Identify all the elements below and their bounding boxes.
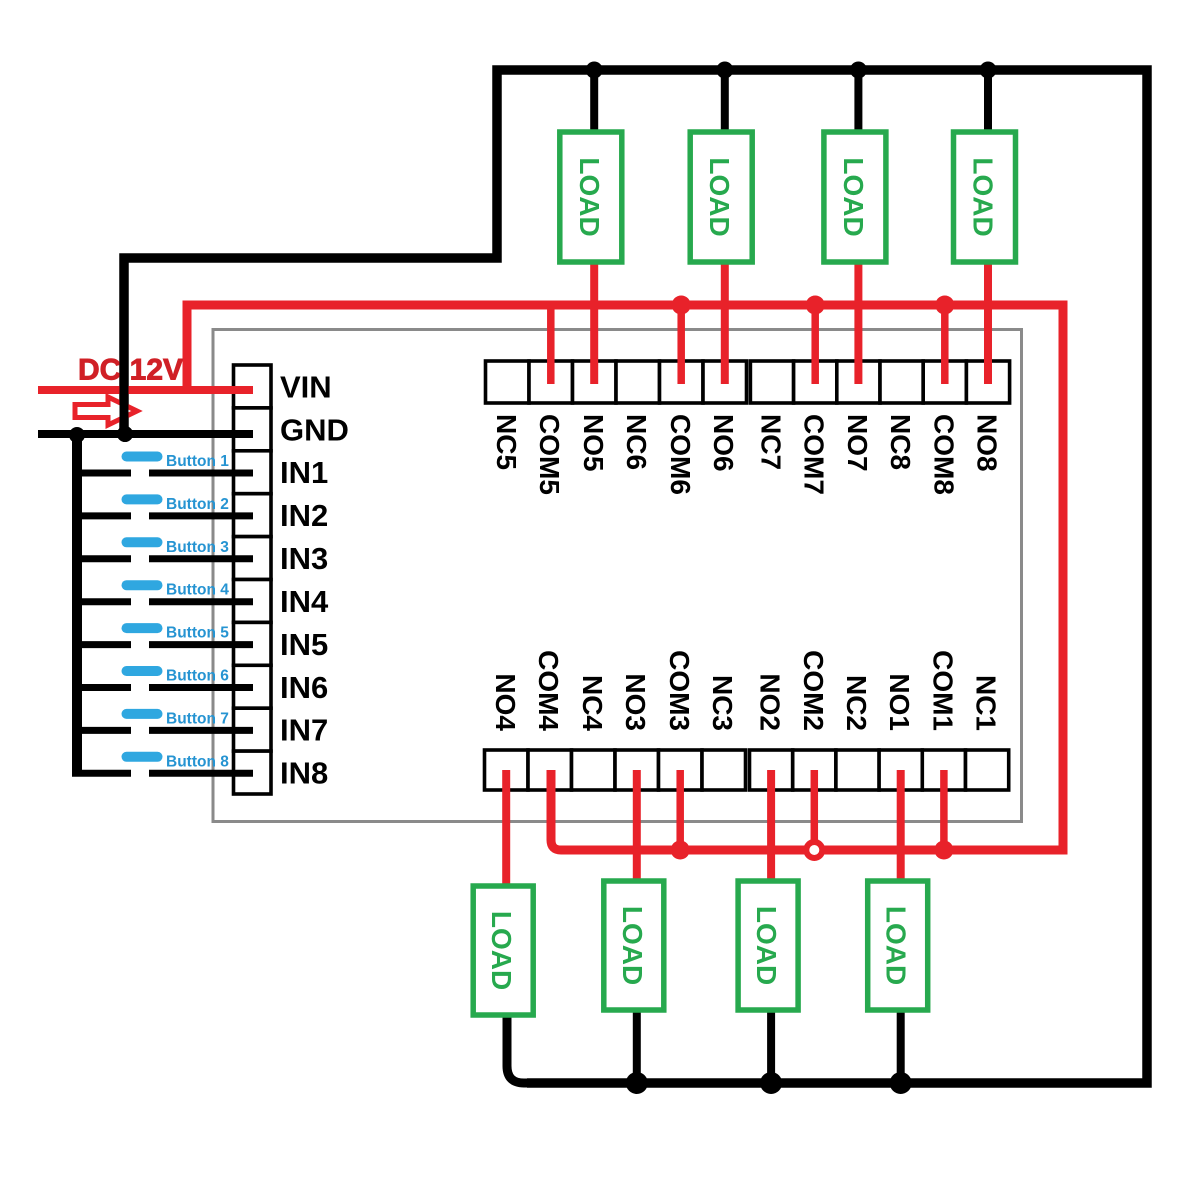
terminal NC8 bbox=[880, 361, 923, 403]
junction 12V bus at COM6 bbox=[672, 296, 691, 315]
terminal NO3 bbox=[615, 750, 659, 790]
load L3 bbox=[604, 881, 664, 1010]
wire GND input line bbox=[38, 430, 253, 438]
terminal IN8 bbox=[234, 751, 272, 794]
wire supply to LOAD 8 bbox=[984, 70, 992, 133]
wire DC12V VIN input line bbox=[38, 386, 253, 394]
wire button 6 to IN6 bbox=[149, 684, 253, 691]
wire NO2 to LOAD 2 bbox=[767, 770, 775, 881]
junction on bottom bus bbox=[890, 1072, 912, 1094]
button B1 actuator bbox=[122, 452, 163, 462]
svg-text:NC2: NC2 bbox=[841, 675, 872, 731]
terminal COM8 bbox=[923, 361, 966, 403]
terminal NC2 bbox=[836, 750, 879, 790]
terminal NC4 bbox=[572, 750, 616, 790]
svg-text:DC 12V: DC 12V bbox=[78, 354, 183, 387]
terminal NO4 bbox=[485, 750, 529, 790]
junction GND at button chain bbox=[69, 427, 85, 443]
svg-text:IN7: IN7 bbox=[280, 713, 328, 748]
svg-text:NO3: NO3 bbox=[620, 673, 651, 731]
svg-text:IN2: IN2 bbox=[280, 498, 328, 533]
svg-text:Button 8: Button 8 bbox=[166, 753, 229, 770]
svg-text:NO4: NO4 bbox=[490, 673, 521, 731]
svg-text:NC7: NC7 bbox=[756, 414, 787, 470]
svg-text:Button 4: Button 4 bbox=[166, 582, 229, 599]
svg-text:COM5: COM5 bbox=[534, 414, 565, 495]
junction GND at supply drop bbox=[117, 426, 133, 442]
load L5 bbox=[560, 132, 622, 262]
terminal NO7 bbox=[837, 361, 880, 403]
svg-text:COM6: COM6 bbox=[665, 414, 696, 495]
junction 12V bus at COM7 bbox=[806, 296, 825, 315]
svg-text:COM4: COM4 bbox=[533, 650, 564, 731]
wire button 7 to IN7 bbox=[149, 727, 253, 734]
wire COM3 to 12V bus bbox=[676, 770, 684, 850]
svg-text:LOAD: LOAD bbox=[838, 157, 869, 236]
wire button 7 left contact bbox=[72, 727, 131, 734]
svg-text:Button 5: Button 5 bbox=[166, 625, 229, 642]
wire button 8 left contact bbox=[72, 770, 131, 777]
terminal NO1 bbox=[879, 750, 922, 790]
load L8 bbox=[954, 132, 1016, 262]
terminal COM3 bbox=[659, 750, 703, 790]
terminal IN7 bbox=[234, 708, 272, 751]
terminal COM1 bbox=[922, 750, 965, 790]
wire button 5 to IN5 bbox=[149, 641, 253, 648]
wire NO4 to LOAD 4 bbox=[502, 770, 510, 886]
terminal NC6 bbox=[616, 361, 660, 403]
wire button 4 to IN4 bbox=[149, 598, 253, 605]
wire supply to LOAD 7 bbox=[854, 70, 862, 133]
button B5 actuator bbox=[122, 623, 163, 633]
wire button 1 left contact bbox=[72, 470, 131, 477]
wire 12V to COM6 bbox=[677, 302, 685, 384]
svg-text:LOAD: LOAD bbox=[751, 906, 782, 985]
wire button 6 left contact bbox=[72, 684, 131, 691]
terminal NC3 bbox=[702, 750, 746, 790]
terminal NC1 bbox=[966, 750, 1009, 790]
svg-text:LOAD: LOAD bbox=[486, 911, 517, 990]
wire LOAD 3 to bottom bus bbox=[633, 1008, 641, 1083]
svg-text:NC4: NC4 bbox=[577, 675, 608, 731]
wire 12V to COM8 bbox=[941, 302, 949, 384]
svg-text:NC8: NC8 bbox=[885, 414, 916, 470]
junction 12V bus at COM3 bbox=[671, 841, 690, 860]
wire button chain vertical bbox=[72, 434, 82, 773]
terminal IN6 bbox=[234, 665, 272, 708]
svg-text:LOAD: LOAD bbox=[574, 157, 605, 236]
svg-text:Button 2: Button 2 bbox=[166, 496, 229, 513]
load L6 bbox=[690, 132, 752, 262]
terminal IN3 bbox=[234, 537, 272, 580]
terminal GND bbox=[234, 408, 272, 451]
wire COM2 to 12V bus bbox=[811, 770, 819, 841]
wire COM1 to 12V bus bbox=[940, 770, 948, 850]
wire LOAD 2 to bottom bus bbox=[767, 1008, 775, 1083]
junction on top bus at LOAD 7 bbox=[850, 62, 867, 79]
wire NO4 load to bottom bus corner bbox=[507, 1013, 570, 1083]
wire button 8 to IN8 bbox=[149, 770, 253, 777]
svg-text:COM3: COM3 bbox=[664, 650, 695, 731]
wire button 3 to IN3 bbox=[149, 555, 253, 562]
button B6 actuator bbox=[122, 666, 163, 676]
relay module outline bbox=[213, 330, 1022, 822]
wire button 1 to IN1 bbox=[149, 470, 253, 477]
junction on bottom bus bbox=[760, 1072, 782, 1094]
svg-text:LOAD: LOAD bbox=[881, 906, 912, 985]
load L4 bbox=[473, 886, 533, 1015]
wire 12V to COM7 bbox=[811, 302, 819, 384]
button B4 actuator bbox=[122, 580, 163, 590]
wire supply drop over-stroke bbox=[120, 345, 129, 438]
wire button 5 left contact bbox=[72, 641, 131, 648]
wire NO1 to LOAD 1 bbox=[897, 770, 905, 881]
button B7 actuator bbox=[122, 709, 163, 719]
wire LOAD 6 to NO6 bbox=[721, 261, 729, 384]
terminal COM2 bbox=[793, 750, 836, 790]
terminal VIN bbox=[234, 365, 272, 408]
terminal COM6 bbox=[660, 361, 704, 403]
wire 12V to COM5 bbox=[547, 302, 555, 384]
load L2 bbox=[738, 881, 798, 1010]
svg-text:GND: GND bbox=[280, 412, 349, 447]
svg-text:LOAD: LOAD bbox=[704, 157, 735, 236]
wire button 2 to IN2 bbox=[149, 512, 253, 519]
load L1 bbox=[868, 881, 928, 1010]
junction 12V bus at COM8 bbox=[935, 296, 954, 315]
terminal IN4 bbox=[234, 580, 272, 623]
junction on top bus at LOAD 5 bbox=[586, 62, 603, 79]
svg-text:NC6: NC6 bbox=[621, 414, 652, 470]
load L7 bbox=[824, 132, 886, 262]
svg-text:COM1: COM1 bbox=[927, 650, 958, 731]
terminal COM7 bbox=[794, 361, 837, 403]
junction GND at supply drop (top copy) bbox=[117, 426, 133, 442]
svg-text:Button 7: Button 7 bbox=[166, 710, 229, 727]
wire supply to LOAD 5 bbox=[590, 70, 598, 133]
svg-text:IN1: IN1 bbox=[280, 455, 328, 490]
svg-text:Button 3: Button 3 bbox=[166, 539, 229, 556]
terminal NC7 bbox=[750, 361, 793, 403]
open junction 12V bus at COM2 bbox=[806, 842, 822, 858]
junction on bottom bus bbox=[626, 1072, 648, 1094]
svg-text:LOAD: LOAD bbox=[968, 157, 999, 236]
wire 12V bus: up from VIN, top bus, right side, bottom bus to COM4 bbox=[187, 305, 1063, 850]
svg-text:NO1: NO1 bbox=[884, 673, 915, 731]
svg-text:VIN: VIN bbox=[280, 369, 332, 404]
svg-text:Button 6: Button 6 bbox=[166, 668, 229, 685]
wire GND main run: left drop, top bus, right side, bottom bus bbox=[124, 70, 1147, 1083]
junction on top bus at LOAD 8 bbox=[980, 62, 997, 79]
svg-text:NO2: NO2 bbox=[755, 673, 786, 731]
svg-text:NC5: NC5 bbox=[491, 414, 522, 470]
terminal NO2 bbox=[750, 750, 793, 790]
svg-text:NO5: NO5 bbox=[578, 414, 609, 472]
wire NO3 to LOAD 3 bbox=[633, 770, 641, 881]
button B8 actuator bbox=[122, 752, 163, 762]
power flow arrow bbox=[75, 397, 137, 425]
svg-text:NC1: NC1 bbox=[971, 675, 1002, 731]
svg-text:COM7: COM7 bbox=[799, 414, 830, 495]
terminal COM5 bbox=[529, 361, 573, 403]
terminal NO5 bbox=[573, 361, 617, 403]
terminal IN1 bbox=[234, 451, 272, 494]
wire LOAD 1 to bottom bus bbox=[897, 1008, 905, 1083]
terminal NO8 bbox=[966, 361, 1009, 403]
svg-text:COM8: COM8 bbox=[928, 414, 959, 495]
svg-text:IN3: IN3 bbox=[280, 541, 328, 576]
wire button 3 left contact bbox=[72, 555, 131, 562]
svg-text:Button 1: Button 1 bbox=[166, 453, 229, 470]
svg-text:IN4: IN4 bbox=[280, 584, 329, 619]
junction on top bus at LOAD 6 bbox=[716, 62, 733, 79]
terminal COM4 bbox=[528, 750, 572, 790]
svg-text:IN8: IN8 bbox=[280, 756, 328, 791]
svg-text:NO6: NO6 bbox=[708, 414, 739, 472]
wire button 2 left contact bbox=[72, 512, 131, 519]
terminal IN2 bbox=[234, 494, 272, 537]
svg-text:NO7: NO7 bbox=[842, 414, 873, 472]
wire LOAD 7 to NO7 bbox=[854, 261, 862, 384]
junction 12V bus at COM1 bbox=[934, 841, 953, 860]
terminal IN5 bbox=[234, 622, 272, 665]
svg-text:LOAD: LOAD bbox=[617, 906, 648, 985]
wire LOAD 5 to NO5 bbox=[590, 261, 598, 384]
svg-text:COM2: COM2 bbox=[798, 650, 829, 731]
wire supply to LOAD 6 bbox=[721, 70, 729, 133]
svg-text:IN5: IN5 bbox=[280, 627, 328, 662]
button B2 actuator bbox=[122, 494, 163, 504]
button B3 actuator bbox=[122, 537, 163, 547]
terminal NO6 bbox=[703, 361, 747, 403]
svg-text:IN6: IN6 bbox=[280, 670, 328, 705]
terminal NC5 bbox=[486, 361, 530, 403]
wire button 4 left contact bbox=[72, 598, 131, 605]
svg-text:NC3: NC3 bbox=[707, 675, 738, 731]
svg-text:NO8: NO8 bbox=[972, 414, 1003, 472]
wire LOAD 8 to NO8 bbox=[984, 261, 992, 384]
